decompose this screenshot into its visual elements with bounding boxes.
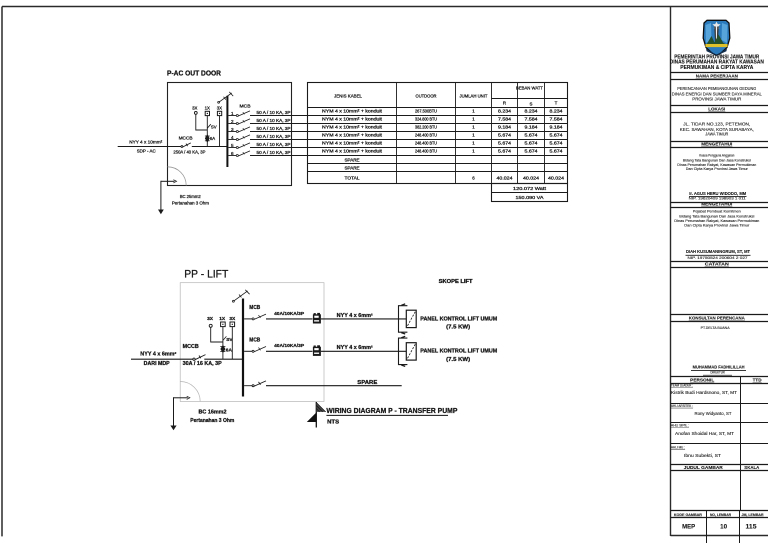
label 7.5 KW 1 [446, 325, 470, 331]
wire voltmeter drop [206, 116, 208, 147]
panel PP-LIFT title [184, 268, 228, 280]
svg-text:NYM 4 x 10mm² + konduit: NYM 4 x 10mm² + konduit [322, 140, 383, 145]
load schedule table frame [308, 83, 568, 202]
svg-text:TEAM LEADER :: TEAM LEADER : [671, 384, 693, 388]
svg-text:MEP: MEP [682, 524, 696, 531]
label 3X lamps PP [207, 316, 214, 322]
wire kwh meter 2 to panel [321, 350, 406, 352]
svg-text:Pertanahan 3 Ohm: Pertanahan 3 Ohm [172, 201, 209, 206]
kwh meter 2 [313, 345, 321, 356]
label MCB group P-AC [240, 104, 251, 109]
svg-text:Ibnu Subekti, ST: Ibnu Subekti, ST [684, 453, 721, 458]
svg-text:(7.5 KW): (7.5 KW) [446, 325, 470, 331]
svg-text:115: 115 [746, 524, 758, 531]
svg-text:1: 1 [472, 124, 475, 129]
kode gambar column dividers [707, 511, 740, 543]
indicator lamp symbol PP [209, 324, 212, 327]
logo jawa timur [703, 20, 730, 56]
label 40A/10KA/3P branch 1 [274, 311, 305, 317]
personil row 3 AHLI SIPIL : [671, 423, 768, 436]
svg-text:AHLI ARSITEK :: AHLI ARSITEK : [671, 404, 693, 408]
svg-text:Kistrik Budi Hardsnono, ST, MT: Kistrik Budi Hardsnono, ST, MT [671, 390, 737, 395]
label 30A / 16 KA, 3P [183, 361, 223, 367]
header MENGETAHUI 2 [671, 202, 768, 208]
svg-text:MCB: MCB [249, 305, 260, 311]
label 7.5 KW 2 [446, 357, 470, 363]
label 50 A / 10 KA, 3P branch 5 [257, 142, 291, 147]
svg-text:1: 1 [472, 132, 475, 137]
panel PP-LIFT enclosure box [180, 283, 324, 402]
wire MCB lift 2 to kwh meter [266, 350, 313, 352]
svg-text:PERENCANAAN PEMBANGUNAN GEDUNG: PERENCANAAN PEMBANGUNAN GEDUNG [677, 86, 756, 91]
svg-text:S: S [530, 102, 533, 107]
label PANEL KONTROL LIFT UMUM 1 [420, 316, 498, 322]
svg-text:7.584: 7.584 [550, 116, 564, 121]
svg-text:5.674: 5.674 [525, 148, 539, 153]
svg-text:PERMUKIMAN & CIPTA KARYA: PERMUKIMAN & CIPTA KARYA [680, 65, 753, 71]
label 3X ammeter PP [229, 316, 236, 322]
breaker MCB 2 P-AC [228, 119, 250, 125]
table row SPARE 2 [345, 165, 360, 170]
label NYY 4 x 6mm2 branch 2 [337, 345, 373, 351]
wire spare branch PP [266, 385, 402, 387]
header MENGETAHUI 1 [671, 142, 768, 148]
svg-text:6A: 6A [226, 347, 233, 353]
label MCCB PP-LIFT [183, 344, 199, 350]
svg-text:JM, LEMBAR: JM, LEMBAR [742, 513, 764, 517]
panel kontrol lift 1 symbol [399, 304, 417, 334]
svg-text:40.024: 40.024 [497, 175, 514, 180]
svg-text:SDP - AC: SDP - AC [137, 148, 157, 153]
table header phase S [530, 102, 533, 107]
svg-text:5.674: 5.674 [525, 132, 539, 137]
svg-text:NYM 4 x 10mm² + konduit: NYM 4 x 10mm² + konduit [322, 124, 383, 129]
svg-text:JUDUL GAMBAR: JUDUL GAMBAR [684, 465, 724, 470]
svg-text:MENGETAHUI: MENGETAHUI [701, 202, 732, 207]
wire ammeter drop PP [231, 327, 233, 360]
busbar PP-LIFT [242, 299, 244, 397]
text lokasi [680, 122, 754, 137]
svg-text:SKOPE LIFT: SKOPE LIFT [439, 279, 473, 285]
svg-text:AHLI SIPIL :: AHLI SIPIL : [671, 424, 689, 428]
svg-text:250A / 40 KA, 3P: 250A / 40 KA, 3P [173, 150, 205, 155]
indicator lamp symbol [194, 112, 197, 115]
label 6A [210, 136, 215, 141]
svg-text:KODE GAMBAR: KODE GAMBAR [674, 513, 702, 517]
wire MCCB to busbar [192, 146, 227, 148]
wire incoming feeder from SDP-AC [118, 146, 181, 148]
svg-text:NYY 4 x 6mm²: NYY 4 x 6mm² [337, 345, 373, 351]
ammeter symbol 3X [217, 111, 221, 115]
text kuasa pengguna anggaran [677, 154, 756, 172]
svg-text:382.200 BTU: 382.200 BTU [415, 124, 437, 129]
personil row 1 TEAM LEADER : [671, 384, 737, 396]
svg-text:5.674: 5.674 [498, 140, 512, 145]
voltmeter symbol 1X [205, 111, 209, 115]
header PERSONIL TTD [671, 377, 768, 384]
ground tap PP-LIFT [174, 396, 190, 426]
svg-text:9.184: 9.184 [498, 124, 512, 129]
svg-text:5.674: 5.674 [498, 132, 512, 137]
svg-text:1: 1 [472, 140, 475, 145]
personil row 4 AHLI ME : [671, 444, 768, 458]
wire MCB lift 1 to kwh meter [266, 318, 313, 320]
switch spare top P-AC [218, 92, 233, 103]
svg-text:(7.5 KW): (7.5 KW) [446, 357, 470, 363]
svg-text:PERSONIL: PERSONIL [690, 378, 714, 383]
svg-text:Bidang Tata Bangunan Dan Jasa: Bidang Tata Bangunan Dan Jasa Konstruksi [679, 215, 754, 219]
label 1X voltmeter PP [219, 316, 226, 322]
text PT.DELTA BUANA [701, 325, 730, 330]
svg-text:Dan Cipta Karya Provinsi Jawa: Dan Cipta Karya Provinsi Jawa Timur [686, 167, 749, 171]
svg-text:JENIS KABEL: JENIS KABEL [334, 93, 362, 98]
svg-text:DIREKTUR: DIREKTUR [710, 371, 725, 375]
table row 5 values [322, 140, 563, 145]
label NYY 4 x 6mm2 incoming [140, 351, 176, 357]
svg-text:50 A / 10 KA, 3P: 50 A / 10 KA, 3P [257, 110, 291, 115]
wire MCB 1 to table row 1 [250, 115, 308, 117]
table row TOTAL [345, 175, 565, 180]
label Pertanahan 3 Ohm PP [190, 418, 235, 424]
svg-text:PP - LIFT: PP - LIFT [184, 268, 228, 280]
wire MCB 2 to table row 2 [250, 123, 308, 125]
svg-text:MENGETAHUI: MENGETAHUI [701, 142, 732, 147]
svg-text:248.400 BTU: 248.400 BTU [415, 132, 437, 137]
svg-text:SPARE: SPARE [345, 165, 360, 170]
label 250A / 40 KA, 3P [173, 150, 205, 155]
label 1X voltmeter [205, 106, 210, 111]
signature DIAH KUSUMANINGRUM, ST, MT [686, 249, 751, 260]
svg-text:120.072 Watt: 120.072 Watt [513, 186, 547, 191]
svg-text:40A/10KA/3P: 40A/10KA/3P [274, 311, 305, 317]
fuse F1 6A [205, 135, 210, 142]
breaker MCCB 30A symbol [193, 355, 206, 361]
breaker MCB 1 P-AC [228, 111, 250, 117]
header KONSULTAN PERENCANA [671, 315, 768, 322]
svg-text:6A: 6A [210, 136, 215, 141]
breaker MCB lift 1 [244, 305, 266, 320]
svg-text:50 A / 10 KA, 3P: 50 A / 10 KA, 3P [257, 134, 291, 139]
svg-text:9.184: 9.184 [525, 124, 539, 129]
svg-text:LOKASI: LOKASI [708, 107, 725, 112]
svg-text:WIRING DIAGRAM P - TRANSFER P: WIRING DIAGRAM P - TRANSFER PUMP [326, 408, 457, 415]
wire lamp drop [196, 114, 208, 130]
busbar P-AC [226, 96, 228, 167]
svg-text:NYY 4 x 6mm²: NYY 4 x 6mm² [337, 313, 373, 319]
svg-text:MCCB: MCCB [179, 136, 193, 141]
svg-text:10: 10 [720, 524, 727, 531]
svg-text:MCCB: MCCB [183, 344, 199, 350]
wire ammeter drop [219, 116, 221, 147]
svg-text:T: T [555, 100, 558, 105]
table row 3 values [322, 124, 563, 129]
svg-text:P-AC OUT DOOR: P-AC OUT DOOR [167, 68, 222, 77]
label NYY 4 x 10mm2 [129, 139, 162, 144]
header LOKASI [671, 106, 768, 113]
signature MUHAMMAD FADHILILLAH [691, 365, 746, 376]
svg-text:BC 16mm2: BC 16mm2 [199, 410, 227, 416]
kwh meter 1 [313, 313, 321, 324]
breaker MCB lift 2 [244, 338, 266, 353]
svg-text:NIP. 19750524 200604 2 027: NIP. 19750524 200604 2 027 [688, 256, 748, 260]
label 3X ammeter [217, 106, 222, 111]
personil row 2 AHLI ARSITEK : [671, 404, 768, 417]
text pejabat pembuat komitmen [674, 210, 759, 228]
drawing title marker flag [307, 402, 326, 428]
svg-text:PT.DELTA BUANA: PT.DELTA BUANA [701, 325, 730, 330]
svg-text:BC 25mm2: BC 25mm2 [180, 194, 201, 199]
svg-text:3X: 3X [217, 106, 222, 111]
panel kontrol lift 2 symbol [399, 336, 417, 366]
svg-text:1: 1 [472, 148, 475, 153]
svg-text:SPARE: SPARE [345, 157, 360, 162]
svg-text:30A / 16 KA, 3P: 30A / 16 KA, 3P [183, 361, 223, 367]
svg-text:324.800 BTU: 324.800 BTU [415, 116, 437, 121]
table row total VA [516, 195, 544, 200]
svg-text:3X: 3X [207, 316, 214, 322]
svg-text:150.090 VA: 150.090 VA [516, 195, 544, 200]
svg-text:1: 1 [472, 116, 475, 121]
svg-text:7.584: 7.584 [498, 116, 512, 121]
label SKOPE LIFT [439, 279, 473, 285]
svg-text:MCB: MCB [249, 338, 260, 344]
svg-text:8.234: 8.234 [498, 108, 512, 113]
switch SV selector [207, 124, 216, 129]
table row 4 values [322, 132, 563, 137]
svg-text:267.500BTU: 267.500BTU [415, 108, 437, 113]
svg-text:NAMA PEKERJAAN: NAMA PEKERJAAN [696, 74, 738, 79]
svg-text:DARI MDP: DARI MDP [144, 361, 171, 367]
drawing title underline [326, 414, 448, 416]
label 3X lamps [192, 106, 197, 111]
text nama pekerjaan [672, 86, 763, 101]
label SPARE branch [357, 380, 378, 386]
svg-text:TTD: TTD [753, 378, 763, 383]
panel PP-LIFT door swing arc [180, 382, 200, 402]
values MEP 10 115 [682, 524, 757, 531]
breaker MCB 4 P-AC [228, 135, 250, 141]
label DARI MDP [144, 361, 171, 367]
svg-text:Pejabat Pembuat Komitmen: Pejabat Pembuat Komitmen [693, 210, 741, 214]
wire MCB 3 to table row 3 [250, 131, 308, 133]
label 50 A / 10 KA, 3P branch 3 [257, 126, 291, 131]
svg-text:SKALA: SKALA [744, 465, 760, 470]
svg-text:8.234: 8.234 [525, 108, 539, 113]
breaker spare branch PP [244, 381, 266, 387]
label 40A/10KA/3P branch 2 [274, 343, 305, 349]
svg-text:Kuasa Pengguna Anggaran: Kuasa Pengguna Anggaran [699, 154, 734, 158]
table row total watt [513, 186, 547, 191]
wire kwh meter 1 to panel [321, 318, 406, 320]
svg-text:50 A / 10 KA, 3P: 50 A / 10 KA, 3P [257, 126, 291, 131]
wire voltmeter drop PP [222, 327, 224, 360]
label SDP - AC [137, 148, 157, 153]
svg-text:40A/10KA/3P: 40A/10KA/3P [274, 343, 305, 349]
header NAMA PEKERJAAN [671, 73, 768, 80]
svg-text:7.584: 7.584 [525, 116, 539, 121]
wire MCB 4 to table row 4 [250, 139, 308, 141]
breaker MCCB 250A symbol [181, 143, 191, 148]
svg-text:NYY 4 x 6mm²: NYY 4 x 6mm² [140, 351, 176, 357]
wire lamp drop PP [211, 327, 223, 342]
svg-text:NYM 4 x 10mm² + konduit: NYM 4 x 10mm² + konduit [322, 148, 383, 153]
label 50 A / 10 KA, 3P branch 4 [257, 134, 291, 139]
svg-text:JUMLAH UNIT: JUMLAH UNIT [460, 93, 488, 98]
svg-text:JL. TIDAR NO.123, PETEMON,: JL. TIDAR NO.123, PETEMON, [683, 122, 750, 127]
svg-text:TOTAL: TOTAL [345, 175, 361, 180]
svg-text:5.674: 5.674 [550, 140, 564, 145]
svg-text:MCB: MCB [240, 104, 251, 109]
svg-text:Pertanahan 3 Ohm: Pertanahan 3 Ohm [190, 418, 235, 424]
ground arrow PP-LIFT [170, 426, 176, 431]
panel P-AC door swing arc [168, 167, 187, 186]
header JUDUL GAMBAR SKALA [671, 465, 768, 471]
wire MCB 6 to table row 6 [250, 155, 308, 157]
svg-text:NO, LEMBAR: NO, LEMBAR [710, 513, 731, 517]
svg-text:5.674: 5.674 [498, 148, 512, 153]
table header JENIS KABEL [334, 93, 362, 98]
svg-text:1X: 1X [219, 316, 226, 322]
svg-text:SV: SV [211, 125, 217, 130]
label BC 25mm2 [180, 194, 201, 199]
svg-text:50 A / 10 KA, 3P: 50 A / 10 KA, 3P [257, 150, 291, 155]
svg-text:R: R [503, 100, 506, 105]
svg-text:Rony Widyanto, ST: Rony Widyanto, ST [695, 411, 732, 416]
ground tap P-AC [161, 180, 177, 210]
voltmeter symbol PP [221, 322, 226, 327]
svg-text:DIAH KUSUMANINGRUM, ST, MT: DIAH KUSUMANINGRUM, ST, MT [686, 249, 750, 254]
breaker MCB 3 P-AC [228, 127, 250, 133]
svg-text:40.024: 40.024 [523, 175, 540, 180]
svg-text:NYM 4 x 10mm² + konduit: NYM 4 x 10mm² + konduit [322, 116, 383, 121]
svg-text:NIP. 19620409 198903 1 011: NIP. 19620409 198903 1 011 [689, 197, 746, 201]
svg-text:AHLI ME :: AHLI ME : [671, 445, 685, 449]
signature Ir. AGUS HERU WIDODO, MM [689, 191, 747, 201]
svg-text:JAWA TIMUR: JAWA TIMUR [705, 131, 728, 136]
label 50 A / 10 KA, 3P branch 6 [257, 150, 291, 155]
svg-text:8.234: 8.234 [550, 108, 564, 113]
breaker MCB 5 P-AC [228, 143, 250, 149]
panel P-AC OUT DOOR title [167, 68, 222, 77]
svg-text:50 A / 10 KA, 3P: 50 A / 10 KA, 3P [257, 142, 291, 147]
svg-text:3X: 3X [229, 316, 236, 322]
svg-text:40.024: 40.024 [548, 175, 565, 180]
switch spare top PP [233, 290, 250, 302]
table header phase T [555, 100, 558, 105]
label pemerintah provinsi jawa timur [670, 54, 764, 70]
personil column divider [740, 377, 742, 511]
svg-text:PANEL KONTROL LIFT UMUM: PANEL KONTROL LIFT UMUM [420, 316, 498, 322]
svg-text:NTS: NTS [327, 419, 339, 425]
svg-text:CATATAN: CATATAN [705, 262, 729, 267]
ground arrow P-AC [158, 210, 164, 215]
svg-text:6: 6 [472, 175, 475, 180]
label 6A PP [226, 347, 233, 353]
svg-text:5.674: 5.674 [550, 148, 564, 153]
label 50 A / 10 KA, 3P branch 2 [257, 118, 291, 123]
label BC 16mm2 [199, 410, 227, 416]
svg-text:PROVINSI JAWA TIMUR: PROVINSI JAWA TIMUR [692, 97, 741, 102]
wire incoming feeder from MDP [131, 358, 193, 360]
label NTS [327, 419, 339, 425]
label 50 A / 10 KA, 3P branch 1 [257, 110, 291, 115]
ammeter symbol PP [230, 322, 235, 327]
label MCCB [179, 136, 193, 141]
svg-text:BEBAN WATT: BEBAN WATT [516, 86, 543, 91]
svg-text:SPARE: SPARE [357, 380, 378, 386]
title block bottom border [671, 535, 768, 537]
svg-text:NYM 4 x 10mm² + konduit: NYM 4 x 10mm² + konduit [322, 132, 383, 137]
svg-text:Ir. AGUS HERU WIDODO, MM: Ir. AGUS HERU WIDODO, MM [689, 191, 746, 196]
svg-text:MUHAMMAD FADHILILLAH: MUHAMMAD FADHILILLAH [693, 365, 745, 370]
header CATATAN [671, 262, 768, 268]
table header JUMLAH UNIT [460, 93, 488, 98]
svg-text:1X: 1X [205, 106, 210, 111]
label PANEL KONTROL LIFT UMUM 2 [420, 349, 498, 355]
svg-text:Dan Cipta Karya Provinsi Jawa: Dan Cipta Karya Provinsi Jawa Timur [684, 224, 750, 228]
svg-text:248.400 BTU: 248.400 BTU [415, 148, 437, 153]
svg-text:OUTDOOR: OUTDOOR [416, 93, 438, 98]
svg-text:KONSULTAN PERENCANA: KONSULTAN PERENCANA [689, 316, 746, 321]
table header phase R [503, 100, 506, 105]
table header BEBAN WATT [516, 86, 543, 91]
panel P-AC enclosure box [168, 83, 292, 186]
label NYY 4 x 6mm2 branch 1 [337, 313, 373, 319]
table row 6 values [322, 148, 563, 153]
breaker MCB 6 P-AC [228, 151, 250, 157]
table row 1 values [322, 108, 563, 113]
svg-text:Anofan Shoidal Har, ST, MT: Anofan Shoidal Har, ST, MT [675, 431, 734, 436]
header KODE GAMBAR row [671, 511, 768, 518]
drawing title text [326, 408, 457, 415]
svg-text:9.184: 9.184 [550, 124, 564, 129]
svg-text:NYM 4 x 10mm² + konduit: NYM 4 x 10mm² + konduit [322, 108, 383, 113]
svg-text:NYY 4 x 10mm²: NYY 4 x 10mm² [129, 139, 162, 144]
svg-text:1: 1 [472, 108, 475, 113]
table row 2 values [322, 116, 563, 121]
svg-text:PANEL KONTROL LIFT UMUM: PANEL KONTROL LIFT UMUM [420, 349, 498, 355]
table header OUTDOOR [416, 93, 438, 98]
svg-text:Dinas Perumahan Rakyat, Kawasa: Dinas Perumahan Rakyat, Kawasan Permukim… [677, 163, 756, 167]
title block left border [670, 7, 672, 537]
label Pertanahan 3 Ohm P-AC [172, 201, 209, 206]
svg-text:5.674: 5.674 [525, 140, 539, 145]
svg-text:3X: 3X [192, 106, 197, 111]
wire MCB 5 to table row 5 [250, 147, 308, 149]
switch SV selector PP [223, 336, 233, 342]
svg-text:248.400 BTU: 248.400 BTU [415, 140, 437, 145]
wire MCCB to busbar PP [204, 358, 243, 360]
fuse F2 6A PP [220, 345, 225, 352]
svg-text:5.674: 5.674 [550, 132, 564, 137]
svg-text:Bidang Tata Bangunan Dan Jasa: Bidang Tata Bangunan Dan Jasa Konstruksi [683, 158, 751, 162]
table row SPARE 1 [345, 157, 360, 162]
svg-text:Dinas Perumahan Rakyat, Kawasa: Dinas Perumahan Rakyat, Kawasan Permukim… [674, 219, 759, 223]
svg-text:50 A / 10 KA, 3P: 50 A / 10 KA, 3P [257, 118, 291, 123]
